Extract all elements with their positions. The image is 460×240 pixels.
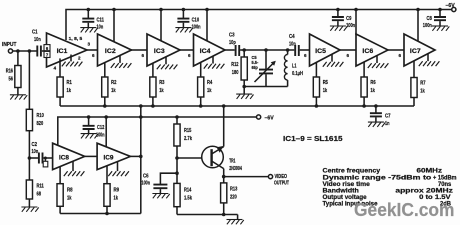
node R13 bottom [222,213,226,217]
svg-text:1n: 1n [385,121,390,127]
resistor R1 1k [57,77,72,97]
node input junction A [16,49,20,53]
svg-text:C3: C3 [229,33,235,39]
svg-text:OUTPUT: OUTPUT [274,180,289,186]
ground IC5 pin 2 [323,54,344,67]
svg-text:INPUT: INPUT [2,42,17,48]
wire emitter to output [224,176,269,178]
node R2 on rail [103,104,107,108]
resistor R6 1k [361,77,376,97]
node IC8 input junction [44,157,47,160]
svg-text:10n: 10n [97,25,104,31]
wire main junction vertical [140,106,142,214]
node R5 on rail [315,104,319,108]
wire IC5 pin4 [315,62,317,77]
svg-text:C11: C11 [97,18,105,24]
svg-text:R10: R10 [37,113,44,119]
svg-text:1k: 1k [114,196,119,202]
resistor R14 1.5k [174,183,193,214]
wire IC9 power drop [105,117,107,147]
svg-text:10n: 10n [289,42,296,48]
svg-text:IC8: IC8 [59,154,70,161]
wire bottom right rail [177,214,238,216]
svg-text:70ns: 70ns [438,182,452,188]
resistor R15 2.7k [174,117,193,183]
wire R7 to rail [413,98,415,107]
svg-text:820: 820 [37,121,44,127]
svg-text:approx 20MHz: approx 20MHz [395,189,453,195]
resistor R8 1k [57,184,73,214]
node rail cross junction [139,115,143,119]
svg-text:56: 56 [9,77,14,83]
wire video summing rail [60,105,414,107]
svg-text:R6: R6 [370,80,375,86]
svg-text:R4: R4 [207,80,213,86]
svg-text:C1: C1 [32,30,38,36]
wire IC5 output [340,49,356,51]
svg-text:3: 3 [88,42,91,47]
capacitor C6 100n [142,171,179,198]
terminal -6V lower [257,115,274,122]
op-amp IC7 [404,34,435,66]
node IC3 power junction [159,8,163,12]
ground IC4 pin 2 [204,56,225,69]
wire IC3 output [180,49,194,51]
svg-text:6: 6 [188,53,191,58]
wire IC7 power drop [417,10,419,42]
svg-text:100n: 100n [423,23,432,29]
svg-text:R13: R13 [230,187,237,193]
op-amp IC8 [53,143,85,169]
svg-text:2N3904: 2N3904 [229,166,242,172]
node R6 on rail [362,104,366,108]
wire R5 to rail [315,97,317,106]
wire IC2 output [132,49,148,51]
svg-text:6: 6 [347,53,350,58]
resistor R11 68 [21,158,43,212]
capacitor C2 10n [29,142,52,164]
svg-text:6: 6 [399,53,402,58]
node R4 on rail [199,104,203,108]
wire IC6 power drop [355,10,357,36]
svg-text:1k: 1k [370,88,375,94]
op-amp IC4 [194,34,226,66]
svg-text:R12: R12 [231,62,238,68]
svg-text:100n: 100n [346,23,355,29]
wire IC4 output [225,49,235,51]
wire IC2 power drop [113,10,115,42]
node IC4 power junction [205,8,209,12]
svg-text:IC9: IC9 [104,154,115,161]
node IC6 power junction [354,8,358,12]
svg-text:IC3: IC3 [154,48,165,55]
ground IC6 pin 2 [368,56,389,69]
wire IC4 power drop [206,10,208,41]
resistor R7 1k [411,78,426,98]
node R3 on rail [151,104,155,108]
wire IC4 pin4 [200,62,202,77]
svg-text:R5: R5 [323,80,328,86]
capacitor C5 5.5-65p variable [252,48,276,86]
svg-text:C7: C7 [385,114,391,120]
svg-text:C9: C9 [346,16,351,22]
ground R12 [236,87,253,99]
svg-text:Video rise time: Video rise time [323,182,371,188]
node IC9 power junction [104,115,108,119]
svg-text:180: 180 [232,70,239,76]
svg-text:IC1: IC1 [57,48,68,55]
node R15 tap [175,115,179,119]
wire IC9 output [130,155,140,157]
wire R4 to rail [200,97,202,106]
terminal INPUT [2,42,17,53]
wire bottom left rail [60,213,141,215]
svg-text:1k: 1k [159,88,164,94]
svg-text:GeekIC.com: GeekIC.com [354,199,455,220]
svg-text:100n: 100n [96,133,105,139]
node IC9 output junction [139,155,143,159]
wire R2 to rail [104,97,106,106]
resistor R4 1k [198,77,213,97]
wire R6 to rail [363,97,365,106]
terminal -6V supply [446,3,456,12]
ground IC8 pin 2 [64,161,85,176]
svg-text:Dynamic range -75dBm to: Dynamic range -75dBm to [323,175,432,181]
node C12 junction [87,115,91,119]
svg-text:100n: 100n [192,25,201,31]
svg-text:68: 68 [37,192,42,198]
terminal VIDEO OUTPUT [268,174,289,187]
wire IC2 pin4 [104,63,106,77]
svg-text:0.1µH: 0.1µH [292,71,303,77]
svg-text:C6: C6 [143,174,149,180]
ground IC7 pin 2 [419,54,440,67]
svg-text:10n: 10n [32,149,39,155]
node C2 junction [28,156,32,160]
svg-text:10n: 10n [34,37,41,43]
svg-text:1k: 1k [111,88,116,94]
svg-text:6: 6 [304,53,307,58]
svg-text:C10: C10 [192,18,200,24]
resistor R13 220 [221,177,238,215]
svg-text:6: 6 [92,53,95,58]
svg-text:65p: 65p [252,65,258,71]
pin 7 box IC1 [44,51,50,57]
resistor R3 1k [150,77,165,97]
resistor R10 820 [26,51,44,158]
svg-text:R3: R3 [159,80,164,86]
svg-text:1.5k: 1.5k [184,196,193,202]
inductor L1 0.1uH [284,48,303,86]
svg-text:IC5: IC5 [315,48,326,55]
svg-text:–6V: –6V [446,3,455,9]
op-amp IC6 [356,34,388,66]
capacitor C9 100n [330,8,356,31]
svg-text:2.7k: 2.7k [184,136,193,142]
svg-text:60MHz: 60MHz [417,169,443,175]
svg-text:R16: R16 [6,69,13,75]
capacitor C7 1n [368,106,391,127]
wire IC6 pin4 [363,62,365,77]
ground IC3 pin 2 [157,57,178,70]
op-amp IC9 [97,143,130,169]
svg-text:+ 15dBm: + 15dBm [433,175,457,181]
node TR1 collector on rail [222,104,226,108]
wire input line [13,50,37,52]
resistor R16 56 [6,51,28,100]
ground bottom right [227,215,244,225]
svg-text:VIDEO: VIDEO [275,174,288,180]
wire IC6 output [388,49,404,51]
svg-text:Centre frequency: Centre frequency [323,169,381,175]
node emitter junction [222,175,226,179]
op-amp IC1 [47,33,88,67]
svg-text:IC7: IC7 [410,48,421,55]
node base junction [175,156,179,160]
pin 7 box IC8 [43,158,48,167]
svg-text:IC4: IC4 [200,48,211,55]
svg-text:R14: R14 [184,188,192,194]
capacitor C8 100n [423,8,450,31]
svg-text:6: 6 [142,53,145,58]
svg-text:4: 4 [54,66,57,71]
svg-text:TR1: TR1 [229,158,235,164]
svg-text:R11: R11 [37,184,44,190]
svg-text:C8: C8 [427,16,432,22]
svg-text:100n: 100n [142,181,151,187]
wire R1 to rail [59,97,61,106]
capacitor C1 10n [32,30,44,57]
svg-text:1k: 1k [67,88,72,94]
svg-text:10p: 10p [229,40,236,46]
wire R3 to rail [152,97,154,106]
wire IC3 power drop [160,10,162,41]
capacitor C10 100n [175,8,201,33]
svg-text:1k: 1k [67,196,72,202]
op-amp IC5 [310,34,341,66]
svg-text:C2: C2 [32,142,38,148]
node input junction B [28,49,32,53]
wire tuned circuit bottom [244,86,287,88]
transistor TR1 2N3904 [202,106,242,177]
ground IC1 pin 2 [62,55,83,67]
pin 6 box IC1 [44,45,50,51]
wire IC1 pin4 [59,58,61,77]
node C3/R12 junction [242,48,246,52]
wire IC3 pin4 [152,63,154,77]
node R9 bottom [105,212,109,216]
wire IC1 output [87,49,98,51]
resistor R2 1k [102,77,117,97]
svg-text:R2: R2 [111,80,116,86]
op-amp IC3 [147,34,180,66]
svg-text:1k: 1k [420,89,425,95]
node C7 on rail [374,104,378,108]
svg-text:–6V: –6V [265,116,274,122]
capacitor C3 10p [229,33,244,57]
svg-text:1, 8, 5: 1, 8, 5 [69,36,83,42]
svg-text:R1: R1 [67,80,72,86]
svg-text:Bandwidth: Bandwidth [323,189,360,195]
svg-text:IC6: IC6 [362,48,373,55]
svg-text:C12: C12 [97,125,104,131]
svg-text:1k: 1k [323,88,328,94]
node IC2 power junction [112,8,116,12]
wire -6V distribution line [58,117,257,145]
spec table [323,169,457,208]
svg-text:1k: 1k [207,88,212,94]
svg-text:2: 2 [78,56,81,61]
svg-text:R15: R15 [184,128,191,134]
capacitor C12 100n [81,117,105,139]
wire IC7 pin4 [413,61,415,78]
op-amp IC2 [98,34,132,66]
resistor R9 1k [104,184,119,214]
wire IC8 output [85,155,97,157]
wire IC9 pin4 [106,166,108,184]
wire top supply rail [66,10,452,41]
svg-text:IC2: IC2 [105,48,116,55]
svg-text:R8: R8 [67,188,73,194]
svg-text:R7: R7 [420,81,425,87]
capacitor C4 10n [289,34,310,56]
resistor R5 1k [313,77,328,97]
wire base [177,157,210,159]
svg-text:C4: C4 [289,34,295,40]
node junction line on rail [139,104,143,108]
svg-text:IC1–9 = SL1615: IC1–9 = SL1615 [283,134,343,143]
svg-text:220: 220 [230,195,237,201]
resistor R12 180 [231,50,247,88]
svg-text:R9: R9 [114,188,120,194]
wire IC8 pin4 [59,167,61,184]
capacitor C11 10n [80,8,104,33]
ground IC2 pin 2 [111,55,132,68]
node IC7 power junction [416,8,420,12]
wire tuned circuit top [244,49,294,51]
svg-text:L1: L1 [292,64,297,70]
ground IC9 pin 2 [108,161,129,176]
